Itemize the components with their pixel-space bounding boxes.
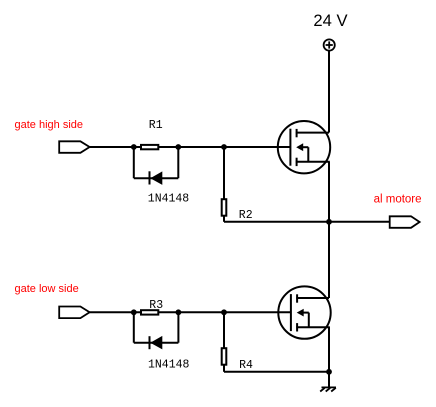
svg-text:24 V: 24 V [313, 11, 347, 30]
wire R4 to ground node [224, 371, 329, 373]
node R1 left [131, 144, 137, 150]
wire diode D1 branch bottom [134, 177, 179, 179]
node R2 branch [221, 144, 227, 150]
ground symbol [320, 387, 336, 391]
wire R4 bottom [223, 365, 225, 372]
svg-text:1N4148: 1N4148 [148, 193, 190, 206]
mosfet Q1 (high side) [278, 121, 330, 173]
svg-text:gate high side: gate high side [15, 119, 84, 131]
svg-text:R2: R2 [239, 209, 253, 222]
wire gate low side [90, 311, 291, 313]
svg-text:R1: R1 [149, 119, 163, 132]
output terminal al motore [390, 216, 420, 228]
diode D2 1N4148 [150, 336, 163, 350]
svg-text:R4: R4 [239, 359, 253, 372]
power terminal +24V [324, 39, 335, 50]
svg-text:gate low side: gate low side [15, 283, 79, 295]
node output junction [326, 219, 332, 225]
input terminal gate low side [59, 307, 89, 319]
node R4 branch [221, 309, 227, 315]
svg-text:1N4148: 1N4148 [148, 358, 190, 371]
wire Q1 source to output node [328, 162, 330, 222]
wire Q2 source to ground node [328, 327, 330, 372]
wire diode D1 branch left [133, 147, 135, 178]
wire diode D2 branch bottom [134, 342, 179, 344]
wire diode D1 branch right [177, 147, 179, 178]
wire gate high side [90, 146, 291, 148]
diode D1 1N4148 [150, 171, 163, 185]
resistor R3 [141, 310, 158, 314]
resistor R2 [222, 199, 227, 216]
node R1 right [175, 144, 181, 150]
wire R2 bottom [223, 216, 225, 222]
wire output node to Q2 drain [328, 222, 330, 298]
wire diode D2 branch left [133, 312, 135, 342]
wire R4 branch top [223, 312, 225, 348]
mosfet Q2 (low side) [278, 286, 330, 338]
node ground junction [326, 369, 332, 375]
wire output line [224, 221, 390, 223]
resistor R1 [141, 145, 158, 149]
svg-text:al motore: al motore [374, 194, 422, 206]
wire diode D2 branch right [177, 312, 179, 342]
wire R2 branch top [223, 147, 225, 199]
node R3 right [176, 309, 182, 315]
wire supply to Q1 drain [328, 50, 330, 132]
node R3 left [131, 309, 137, 315]
resistor R4 [222, 348, 227, 365]
wire ground stub [328, 372, 330, 387]
input terminal gate high side [59, 141, 89, 153]
